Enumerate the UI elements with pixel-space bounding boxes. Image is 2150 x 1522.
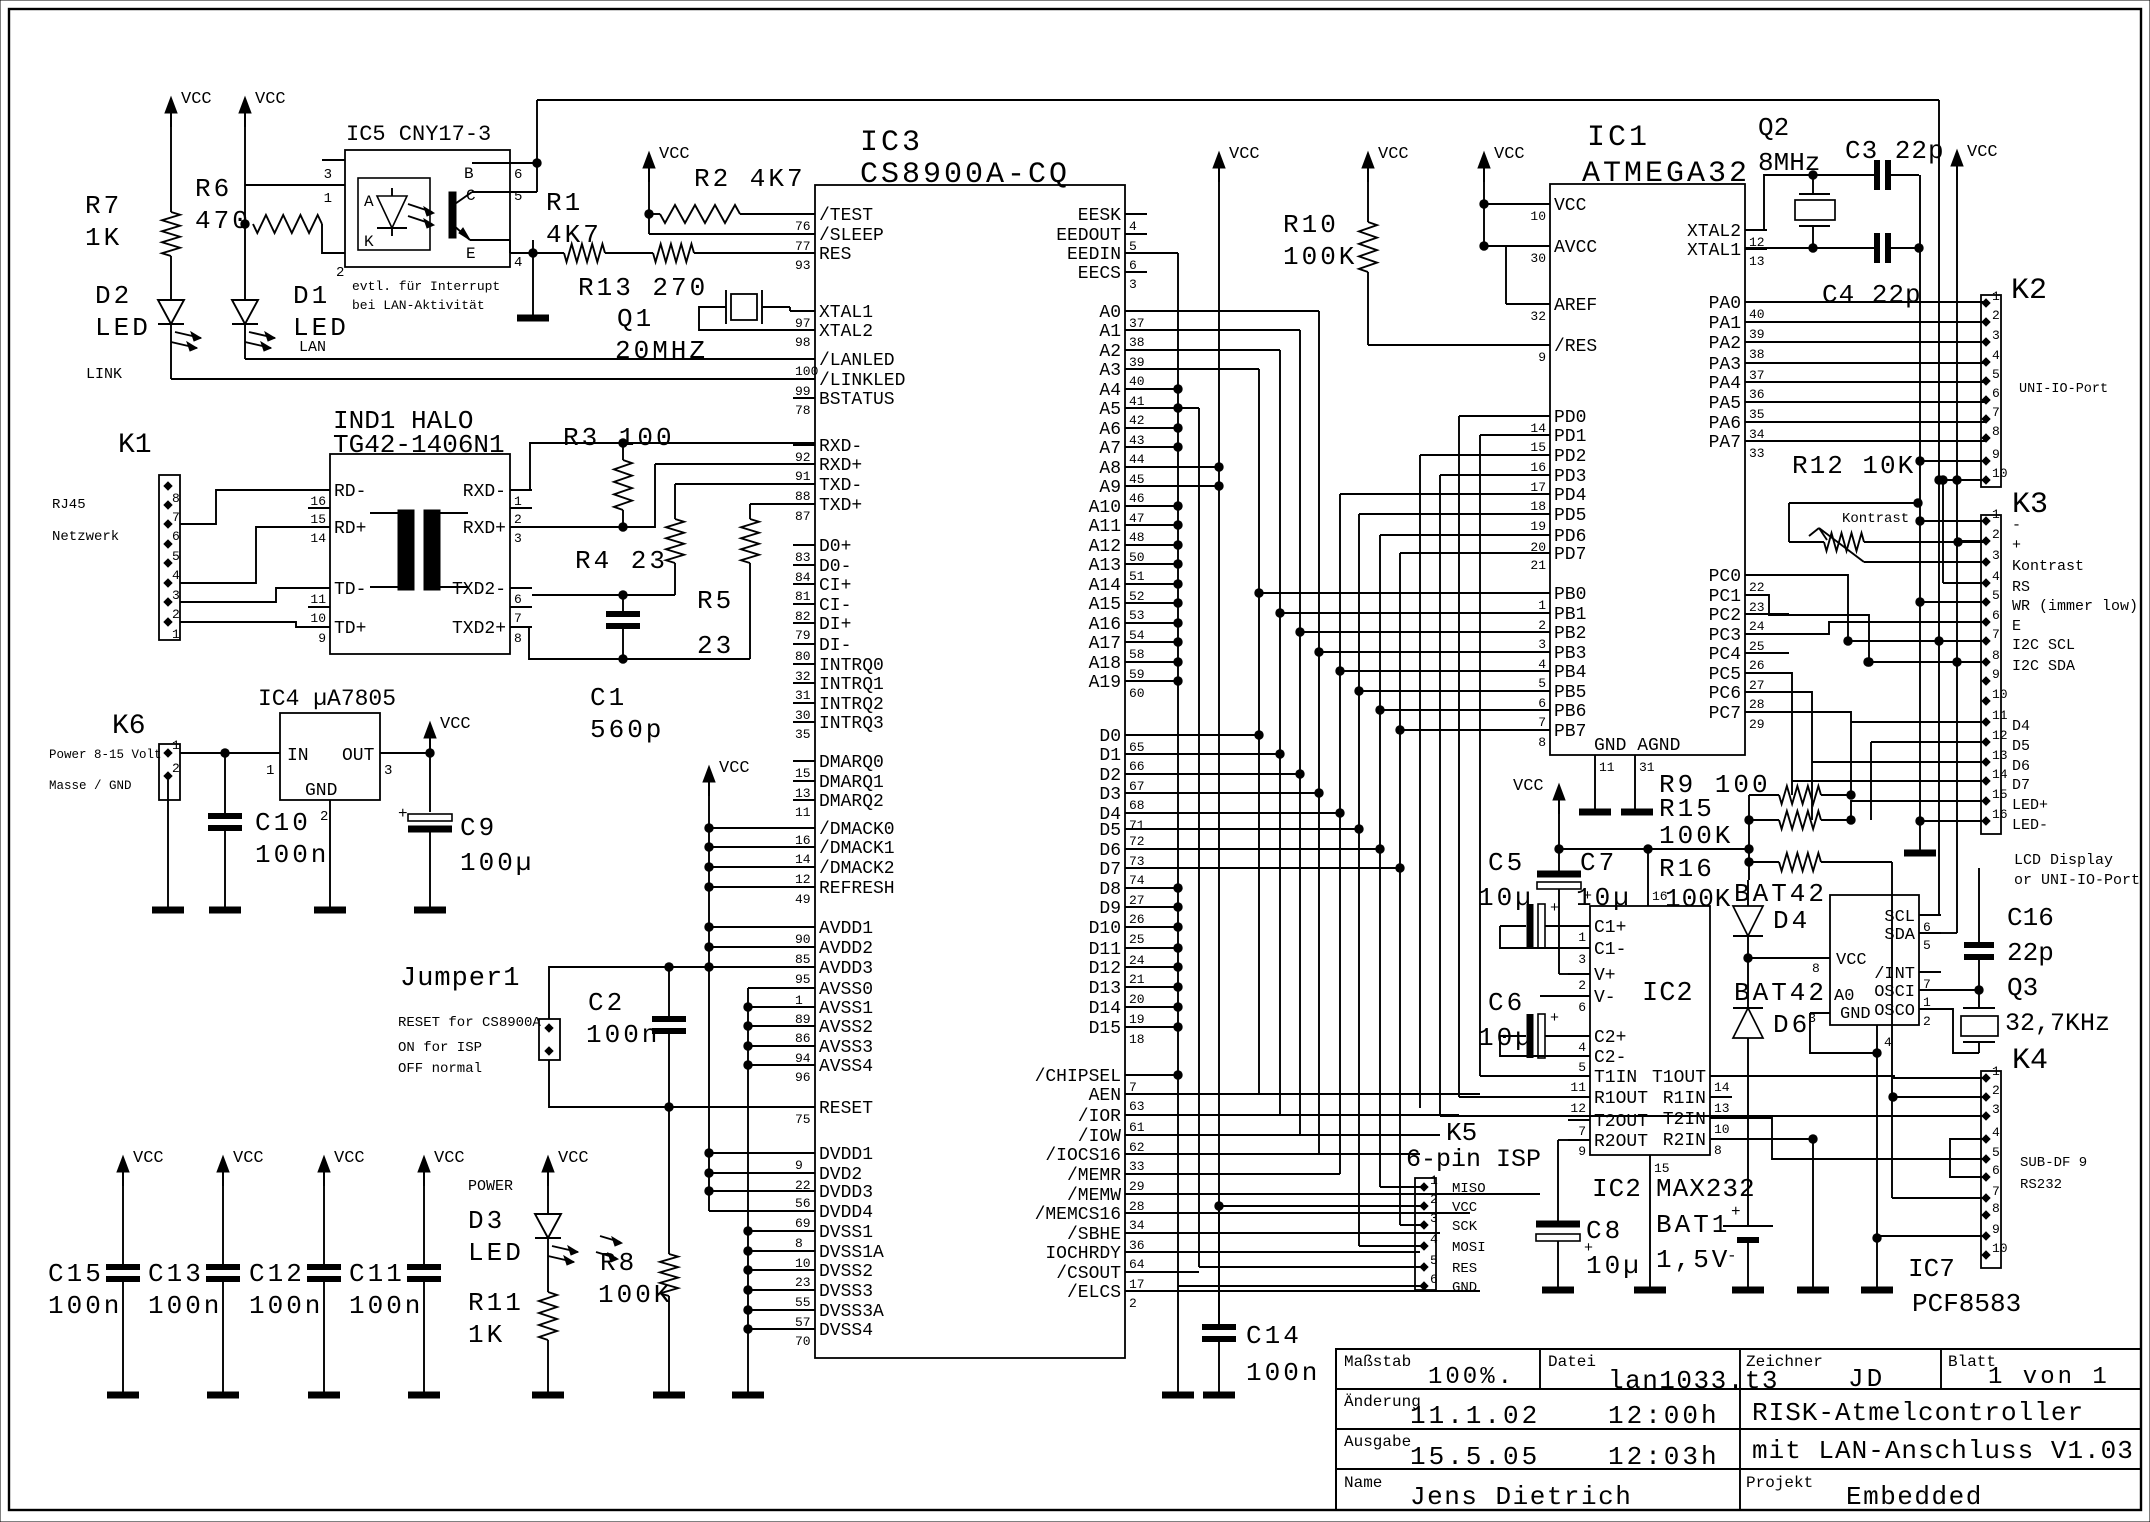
K1 pin 1 — [164, 618, 172, 626]
svg-text:30: 30 — [795, 708, 811, 723]
svg-text:CI+: CI+ — [819, 576, 851, 596]
IC3 pin 32 INTRQ0 — [793, 663, 815, 665]
wire B C junction up to top rail — [536, 100, 538, 192]
svg-text:85: 85 — [795, 952, 811, 967]
svg-text:RES: RES — [1452, 1261, 1477, 1277]
svg-text:3: 3 — [1430, 1211, 1438, 1226]
svg-text:28: 28 — [1749, 697, 1765, 712]
IC3 pin 68 D3 — [1125, 792, 1147, 794]
wire EEDIN to bus — [1147, 252, 1178, 254]
svg-text:49: 49 — [795, 892, 811, 907]
svg-text:88: 88 — [795, 489, 811, 504]
svg-text:PD5: PD5 — [1554, 506, 1586, 526]
svg-text:C1-: C1- — [1594, 940, 1626, 960]
wire K3.12 D5 — [1871, 741, 1986, 743]
IC1 pin 28 PC6 — [1745, 691, 1767, 693]
svg-text:D4: D4 — [2012, 718, 2030, 735]
wire VCC to IC1 AVCC — [1484, 245, 1528, 247]
svg-text:IC4 µA7805: IC4 µA7805 — [258, 686, 396, 712]
wire IC3 row y369 — [1147, 368, 1259, 370]
svg-text:13: 13 — [1714, 1101, 1730, 1116]
svg-text:6: 6 — [1430, 1272, 1438, 1287]
svg-text:/MEMCS16: /MEMCS16 — [1035, 1205, 1121, 1225]
svg-text:+: + — [1731, 1203, 1741, 1221]
svg-text:SDA: SDA — [1884, 926, 1915, 945]
ground K6 — [152, 907, 184, 914]
svg-text:RXD+: RXD+ — [463, 519, 506, 539]
svg-text:21: 21 — [1129, 972, 1145, 987]
IC3 pin 55 DVSS3 — [793, 1289, 815, 1291]
IC5 E stub — [470, 239, 510, 241]
svg-text:EEDIN: EEDIN — [1067, 245, 1121, 265]
svg-text:UNI-IO-Port: UNI-IO-Port — [2019, 382, 2108, 397]
wire VCC649 down — [648, 167, 650, 234]
ground IC1 GND — [1579, 809, 1611, 816]
svg-text:TG42-1406N1: TG42-1406N1 — [333, 430, 505, 460]
capacitor C11 — [423, 1170, 425, 1267]
svg-text:11: 11 — [1570, 1080, 1586, 1095]
svg-text:6: 6 — [1538, 696, 1546, 711]
wire IC1 row y494 — [1340, 493, 1528, 495]
wire IC3 row y1007 — [1147, 1006, 1178, 1008]
IC5 transistor — [449, 192, 456, 238]
wire K5 VCC — [1219, 1205, 1424, 1207]
K1 pin 6 — [164, 520, 172, 528]
svg-text:INTRQ2: INTRQ2 — [819, 695, 884, 715]
svg-text:34: 34 — [1749, 427, 1765, 442]
svg-text:PB3: PB3 — [1554, 644, 1586, 664]
svg-text:A12: A12 — [1089, 537, 1121, 557]
svg-text:A4: A4 — [1099, 381, 1121, 401]
IC2 pin 5 C2- — [1568, 1055, 1590, 1057]
K1 pin 8 — [164, 482, 172, 490]
svg-text:2: 2 — [172, 607, 180, 622]
wire tap y887 — [709, 886, 815, 888]
svg-text:8: 8 — [1812, 961, 1820, 976]
wire IC3 row y1135 — [1147, 1134, 1440, 1136]
svg-text:A13: A13 — [1089, 556, 1121, 576]
svg-text:PB4: PB4 — [1554, 663, 1586, 683]
wire IC3 row y330 — [1147, 329, 1300, 331]
svg-text:VCC: VCC — [434, 1149, 465, 1168]
svg-text:Jens Dietrich: Jens Dietrich — [1410, 1482, 1632, 1512]
svg-text:81: 81 — [795, 589, 811, 604]
IC3 pin 53 A15 — [1125, 602, 1147, 604]
svg-text:D15: D15 — [1089, 1019, 1121, 1039]
capacitor C5 electrolytic horizontal — [1500, 925, 1526, 927]
svg-text:14: 14 — [795, 852, 811, 867]
svg-text:23: 23 — [697, 631, 734, 661]
svg-text:MAX232: MAX232 — [1656, 1174, 1756, 1204]
IC2 pin 7 T2OUT — [1568, 1119, 1590, 1121]
svg-text:BAT42: BAT42 — [1734, 978, 1827, 1008]
optocoupler IC5 box — [345, 150, 510, 267]
svg-text:C3 22p: C3 22p — [1845, 136, 1945, 166]
IND1 pin 16 RD- — [308, 489, 330, 491]
svg-text:2: 2 — [1578, 978, 1586, 993]
IC3 pin 88 TXD- — [793, 483, 815, 485]
R bus left vertical — [1748, 795, 1750, 880]
svg-text:10: 10 — [1530, 209, 1546, 224]
IC1 pin 25 PC3 — [1745, 633, 1767, 635]
K1 pin 3 — [164, 579, 172, 587]
svg-text:VCC: VCC — [659, 145, 690, 164]
resistor R13 — [653, 244, 694, 262]
K3 pin 3 Kontrast — [1982, 558, 1990, 566]
IC3 pin 6 EEDIN — [1125, 252, 1147, 254]
svg-text:2: 2 — [1923, 1014, 1931, 1029]
regulator IC4 box — [280, 713, 380, 800]
svg-text:PA3: PA3 — [1709, 355, 1741, 375]
svg-text:100K: 100K — [1283, 242, 1357, 272]
svg-text:23: 23 — [1749, 600, 1765, 615]
svg-text:/LINKLED: /LINKLED — [819, 371, 905, 391]
IC3 pin 17 /CSOUT — [1125, 1271, 1147, 1273]
IC U3 CS8900A-CQ box — [815, 185, 1125, 1358]
svg-text:C7: C7 — [1580, 848, 1617, 878]
wire K2.9 — [1920, 460, 1986, 462]
IC3 pin 70 DVSS4 — [793, 1328, 815, 1330]
svg-text:75: 75 — [795, 1112, 811, 1127]
wire VCC to IC1 VCC — [1484, 203, 1528, 205]
svg-text:C1: C1 — [590, 683, 627, 713]
svg-text:/MEMW: /MEMW — [1067, 1186, 1121, 1206]
svg-text:DMARQ2: DMARQ2 — [819, 792, 884, 812]
svg-text:100n: 100n — [586, 1020, 660, 1050]
svg-text:10: 10 — [1992, 687, 2008, 702]
svg-text:REFRESH: REFRESH — [819, 879, 895, 899]
svg-text:1: 1 — [266, 763, 274, 779]
svg-text:XTAL1: XTAL1 — [1687, 241, 1741, 261]
node R3 bottom — [618, 522, 627, 531]
svg-text:4: 4 — [1992, 569, 2000, 584]
svg-text:PD4: PD4 — [1554, 486, 1586, 506]
svg-text:50: 50 — [1129, 550, 1145, 565]
svg-text:3: 3 — [172, 588, 180, 603]
wire tap y1153 — [709, 1152, 815, 1154]
svg-text:TD+: TD+ — [334, 619, 366, 639]
wire IC3 row y1154 — [1147, 1153, 1420, 1155]
wire IC3 row y987 — [1147, 986, 1178, 988]
IND1 pin 11 TD- — [308, 587, 330, 589]
resistor R1 — [533, 252, 564, 254]
svg-text:14: 14 — [1992, 767, 2008, 782]
capacitor C12 — [323, 1170, 325, 1267]
svg-text:10: 10 — [795, 1256, 811, 1271]
wire K3.8 — [1868, 661, 1986, 663]
wire K1.1 to IND1 TD+ — [180, 622, 308, 627]
IND1 pin 8 TXD2+ — [510, 626, 532, 628]
IC3 pin 97 XTAL1 — [793, 310, 815, 312]
svg-text:8: 8 — [1992, 1201, 2000, 1216]
svg-text:7: 7 — [1992, 405, 2000, 420]
ground IC1 AGND — [1621, 809, 1653, 816]
svg-text:3: 3 — [324, 167, 332, 183]
svg-text:T2OUT: T2OUT — [1594, 1112, 1648, 1132]
IC3 pin 74 D7 — [1125, 867, 1147, 869]
K2 pin 1 — [1982, 299, 1990, 307]
svg-text:C9: C9 — [460, 813, 497, 843]
IC2 pin 14 T1OUT — [1710, 1075, 1732, 1077]
node OSCI — [1974, 985, 1983, 994]
svg-text:IC2: IC2 — [1592, 1174, 1642, 1204]
wire E junction to RES — [532, 240, 534, 253]
wire vertical x1219 — [1218, 160, 1220, 1329]
title block outer — [1336, 1349, 2141, 1510]
svg-text:+: + — [1550, 1010, 1559, 1027]
svg-text:23: 23 — [795, 1275, 811, 1290]
svg-text:63: 63 — [1129, 1099, 1145, 1114]
resistor R7 — [162, 212, 180, 256]
svg-text:C11: C11 — [349, 1259, 405, 1289]
wire IC3 row y350 — [1147, 349, 1280, 351]
svg-text:24: 24 — [1749, 619, 1765, 634]
svg-text:R11: R11 — [468, 1288, 524, 1318]
svg-text:2: 2 — [172, 761, 180, 776]
IC3 pin 83 D0+ — [793, 544, 815, 546]
svg-text:AEN: AEN — [1089, 1086, 1121, 1106]
IND1 pin 15 nc — [308, 507, 330, 509]
svg-text:59: 59 — [1129, 667, 1145, 682]
node AVCC — [1479, 241, 1488, 250]
svg-text:K4: K4 — [2012, 1044, 2048, 1078]
svg-text:D1: D1 — [1099, 746, 1121, 766]
power VCC for R7 — [165, 97, 177, 113]
wire C7 to V+ — [1559, 973, 1568, 975]
svg-text:58: 58 — [1129, 647, 1145, 662]
svg-text:6: 6 — [514, 592, 522, 607]
svg-text:27: 27 — [1129, 893, 1145, 908]
wire IC1 row y475 — [1440, 474, 1528, 476]
IC1 pin 13 XTAL1 — [1745, 248, 1767, 250]
wire RXD+ vertical — [532, 464, 655, 527]
svg-text:76: 76 — [795, 219, 811, 234]
svg-text:RS: RS — [2012, 579, 2030, 596]
svg-text:D14: D14 — [1089, 999, 1121, 1019]
svg-text:R10: R10 — [1283, 210, 1339, 240]
svg-text:D12: D12 — [1089, 959, 1121, 979]
svg-text:MOSI: MOSI — [1452, 1240, 1486, 1256]
svg-text:PD0: PD0 — [1554, 408, 1586, 428]
AVSS bus 748 vertical — [748, 987, 815, 989]
svg-text:TD-: TD- — [334, 580, 366, 600]
svg-text:MISO: MISO — [1452, 1181, 1486, 1197]
power VCC 1219 — [1213, 152, 1225, 168]
IC3 pin 72 D5 — [1125, 828, 1147, 830]
svg-text:RXD-: RXD- — [463, 482, 506, 502]
svg-text:DVSS4: DVSS4 — [819, 1321, 873, 1341]
ground 1920 — [1904, 850, 1936, 857]
svg-text:37: 37 — [1129, 316, 1145, 331]
svg-text:44: 44 — [1129, 452, 1145, 467]
K4 pin 4 — [1982, 1135, 1990, 1143]
svg-text:12:03h: 12:03h — [1608, 1442, 1720, 1472]
svg-text:TXD-: TXD- — [819, 476, 862, 496]
svg-text:C13: C13 — [148, 1259, 204, 1289]
wire IC3 row y1194 — [1147, 1193, 1540, 1195]
svg-text:PC5: PC5 — [1709, 665, 1741, 685]
svg-text:ATMEGA32: ATMEGA32 — [1582, 157, 1750, 191]
ground C14 — [1203, 1392, 1235, 1399]
node C2 bottom — [664, 1102, 673, 1111]
svg-text:RS232: RS232 — [2020, 1177, 2062, 1193]
svg-text:60: 60 — [1129, 686, 1145, 701]
power VCC C12 — [318, 1156, 330, 1172]
svg-text:DI+: DI+ — [819, 615, 851, 635]
wire vertical x1280 — [1279, 350, 1281, 1115]
svg-text:89: 89 — [795, 1012, 811, 1027]
IC3 pin 39 A2 — [1125, 349, 1147, 351]
svg-text:PC3: PC3 — [1709, 626, 1741, 646]
wire AVSS/DVSS tap y1046 — [748, 1045, 815, 1047]
IC1 pin 32 AREF — [1528, 303, 1550, 305]
ground C11 — [408, 1392, 440, 1399]
svg-text:1: 1 — [514, 494, 522, 509]
IC2 pin 8 R2IN — [1710, 1138, 1732, 1140]
svg-text:/DMACK0: /DMACK0 — [819, 820, 895, 840]
wire XTAL1 route — [1745, 247, 1877, 249]
IND1 pin 2 nc — [510, 507, 532, 509]
svg-text:+: + — [398, 805, 408, 823]
svg-text:A14: A14 — [1089, 576, 1121, 596]
svg-text:100n: 100n — [148, 1291, 222, 1321]
wire IC3 row y1291 — [1147, 1290, 1480, 1292]
svg-text:R2OUT: R2OUT — [1594, 1132, 1648, 1152]
LED D2 — [158, 300, 184, 324]
svg-text:47: 47 — [1129, 511, 1145, 526]
svg-text:10: 10 — [1992, 466, 2008, 481]
IC3 pin 2 /ELCS — [1125, 1290, 1147, 1292]
svg-text:6: 6 — [172, 529, 180, 544]
K3 pin 10 nc — [1982, 697, 1990, 705]
svg-text:JD: JD — [1848, 1364, 1885, 1394]
svg-text:/IOW: /IOW — [1078, 1127, 1121, 1147]
svg-text:GND: GND — [305, 781, 337, 801]
IC5 pin3 stub — [322, 159, 345, 161]
svg-text:R16: R16 — [1659, 854, 1715, 884]
IC3 pin 69 DVDD4 — [793, 1210, 815, 1212]
node C4 right — [1914, 243, 1923, 252]
wire T2IN to K4.5 — [1732, 1118, 1986, 1159]
node C10 tap — [220, 748, 229, 757]
LED D1 — [232, 300, 258, 324]
svg-text:PD6: PD6 — [1554, 527, 1586, 547]
capacitor C4 — [1874, 233, 1880, 263]
svg-text:/DMACK2: /DMACK2 — [819, 859, 895, 879]
svg-text:D6: D6 — [2012, 758, 2030, 775]
ground BAT1 — [1732, 1287, 1764, 1294]
wire IC1 row y553 — [1400, 552, 1528, 554]
svg-text:28: 28 — [1129, 1199, 1145, 1214]
svg-text:Q3: Q3 — [2007, 973, 2038, 1003]
svg-text:11: 11 — [795, 805, 811, 820]
K2 pin 3 — [1982, 338, 1990, 346]
power VCC 1368 — [1362, 152, 1374, 168]
wire TD2- row to R4 — [532, 594, 675, 596]
svg-text:A16: A16 — [1089, 615, 1121, 635]
IND1 pin 7 nc — [510, 606, 532, 608]
wire tap y1191 — [709, 1190, 815, 1192]
wire D1 to /LANLED — [244, 324, 246, 359]
svg-text:/IOCS16: /IOCS16 — [1045, 1146, 1121, 1166]
K5 pin 1 MISO — [1420, 1183, 1428, 1191]
svg-text:25: 25 — [1749, 639, 1765, 654]
svg-text:87: 87 — [795, 509, 811, 524]
wire AVSS/DVSS tap y1026 — [748, 1025, 815, 1027]
wire vertical x1340 — [1339, 494, 1341, 1174]
svg-text:7: 7 — [1578, 1124, 1586, 1139]
IC1 pin 34 PA6 — [1745, 421, 1767, 423]
svg-text:48: 48 — [1129, 530, 1145, 545]
IC2 pin 9 R2OUT — [1568, 1139, 1590, 1141]
svg-text:DVSS2: DVSS2 — [819, 1262, 873, 1282]
svg-text:/TEST: /TEST — [819, 206, 873, 226]
svg-text:10: 10 — [1992, 1241, 2008, 1256]
svg-text:C15: C15 — [48, 1259, 104, 1289]
IC3 pin 12 /DMACK2 — [793, 866, 815, 868]
svg-text:26: 26 — [1749, 658, 1765, 673]
wire vertical x1300 — [1299, 330, 1301, 1135]
svg-text:VCC: VCC — [255, 90, 286, 109]
svg-text:DMARQ1: DMARQ1 — [819, 773, 884, 793]
ground C9 — [414, 907, 446, 914]
IC3 pin 92 RXD- — [793, 444, 815, 446]
wire R2OUT — [1558, 1139, 1568, 1141]
IC3 pin 73 D6 — [1125, 848, 1147, 850]
svg-text:INTRQ1: INTRQ1 — [819, 675, 884, 695]
IC1 pin 27 PC5 — [1745, 672, 1767, 674]
wire VCC 1559 down — [1558, 799, 1560, 871]
svg-text:PB6: PB6 — [1554, 702, 1586, 722]
wire C2 down through R8 — [668, 1107, 670, 1254]
svg-text:DVDD3: DVDD3 — [819, 1183, 873, 1203]
svg-text:OSCI: OSCI — [1874, 983, 1915, 1002]
wire PA7 to K2.8 — [1767, 440, 1986, 442]
svg-text:31: 31 — [1639, 760, 1655, 775]
IC3 pin 60 A19 — [1125, 680, 1147, 682]
capacitor C8 electrolytic — [1557, 1140, 1559, 1222]
wire top rail — [537, 99, 1939, 101]
svg-text:13: 13 — [1992, 748, 2008, 763]
IC3 pin 48 A11 — [1125, 524, 1147, 526]
svg-text:71: 71 — [1129, 818, 1145, 833]
svg-text:100n: 100n — [349, 1291, 423, 1321]
svg-text:1: 1 — [324, 191, 332, 207]
crystal Q1 — [731, 294, 757, 320]
svg-text:DVSS1: DVSS1 — [819, 1223, 873, 1243]
svg-text:3: 3 — [1992, 548, 2000, 563]
svg-text:INTRQ3: INTRQ3 — [819, 714, 884, 734]
svg-text:LAN: LAN — [299, 339, 326, 356]
wire VCC 1368 down — [1367, 167, 1369, 222]
IC1 pin 5 PB4 — [1528, 670, 1550, 672]
svg-text:Ausgabe: Ausgabe — [1344, 1433, 1411, 1451]
IC3 pin 62 /IOW — [1125, 1134, 1147, 1136]
wire K3.5 — [1920, 601, 1986, 603]
ground C10 — [209, 907, 241, 914]
svg-text:100n: 100n — [1246, 1358, 1320, 1388]
node C2 top — [664, 962, 673, 971]
svg-text:LED-: LED- — [2012, 817, 2048, 834]
svg-text:62: 62 — [1129, 1140, 1145, 1155]
K2 pin 5 — [1982, 377, 1990, 385]
wire vertical x1178 — [1177, 253, 1179, 1286]
svg-text:A0: A0 — [1099, 303, 1121, 323]
IC3 pin 28 /MEMW — [1125, 1193, 1147, 1195]
svg-text:T1OUT: T1OUT — [1652, 1068, 1706, 1088]
svg-text:D3: D3 — [468, 1206, 505, 1236]
svg-text:10µ: 10µ — [1478, 1023, 1534, 1053]
